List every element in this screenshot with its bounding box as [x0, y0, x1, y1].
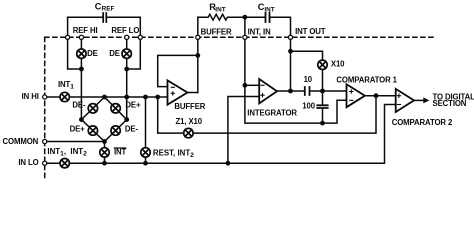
svg-text:REF LO: REF LO	[111, 26, 139, 35]
junction REF LO / CREF+	[124, 67, 129, 72]
svg-text:DE+: DE+	[70, 125, 86, 134]
wire X10 switch branch	[291, 51, 323, 91]
op-amp BUFFER	[168, 80, 188, 104]
junction bridge left corner	[79, 117, 84, 122]
pin COMMON	[43, 139, 47, 143]
switch REST,INT2	[141, 148, 150, 157]
svg-text:DE+: DE+	[125, 100, 141, 109]
svg-text:REF HI: REF HI	[73, 26, 98, 35]
junction REF LO line at IN HI	[124, 95, 129, 100]
svg-text:REF: REF	[102, 6, 115, 13]
junction REST branch at IN HI	[143, 95, 148, 100]
switch DE+ (bridge lower left)	[88, 126, 97, 135]
svg-text:INT1, INT2: INT1, INT2	[47, 147, 87, 158]
svg-text:BUFFER: BUFFER	[174, 102, 205, 111]
svg-text:IN LO: IN LO	[18, 158, 38, 167]
wire INT OUT lead	[290, 37, 292, 91]
junction bridge right corner	[124, 117, 129, 122]
svg-text:INT: INT	[114, 148, 127, 157]
wire REF LO lead	[126, 37, 128, 69]
junction INT OUT / X10 branch	[288, 49, 293, 54]
wire buffer feedback loop	[158, 55, 198, 86]
switch INT-bar (bridge bottom)	[100, 148, 109, 157]
integrator plus sign	[261, 94, 264, 97]
wire REF LO to bridge right corner	[126, 69, 128, 120]
comparator2 minus sign	[397, 104, 400, 106]
label CINT	[258, 2, 275, 14]
junction REST switch at IN LO	[143, 161, 148, 166]
wire buffer output	[187, 92, 197, 94]
pin CREF-	[66, 35, 70, 39]
svg-text:COMPARATOR 1: COMPARATOR 1	[336, 75, 397, 84]
wire CREF- lead	[68, 17, 82, 69]
arrow to digital section	[423, 97, 429, 103]
buffer minus sign	[171, 86, 174, 88]
svg-text:INTEGRATOR: INTEGRATOR	[247, 108, 297, 117]
wire integrator plus branch	[228, 97, 259, 164]
comparator2 plus sign	[397, 94, 400, 97]
svg-text:DE-: DE-	[125, 125, 139, 134]
capacitor 10	[305, 87, 310, 95]
svg-text:INT1: INT1	[58, 80, 74, 91]
switch Z1,X10	[184, 128, 193, 137]
capacitor CINT	[245, 13, 291, 38]
switch INT1,INT2 (IN LO)	[60, 159, 69, 168]
wire bridge left diagonals	[81, 97, 104, 142]
switch DE (under REF HI)	[77, 49, 86, 58]
pin INT,IN	[243, 35, 247, 39]
junction RINT / CINT / INT,IN	[243, 15, 248, 20]
junction Z1 branch at IN HI	[155, 95, 160, 100]
svg-text:DE: DE	[109, 49, 120, 58]
svg-text:COMPARATOR 2: COMPARATOR 2	[392, 118, 453, 127]
wire comparator2 output	[414, 99, 424, 101]
wire BUFFER pin lead	[197, 17, 199, 92]
wire integrator output / 10 cap row	[277, 90, 347, 92]
op-amp COMPARATOR 1	[347, 84, 365, 107]
wire REST INT2 branch	[145, 97, 147, 163]
svg-text:10: 10	[304, 75, 313, 84]
wire 100 line to comparator1 minus	[323, 100, 347, 123]
wire REF HI lead	[80, 37, 82, 69]
switch DE+ (bridge upper right)	[111, 104, 120, 113]
wire bridge right diagonals	[105, 97, 127, 142]
wire INT,IN lead down to 100 line	[245, 17, 323, 123]
wire Z1 X10 feedback line	[158, 96, 376, 133]
wire REF HI to bridge left corner	[80, 69, 82, 120]
svg-text:X10: X10	[331, 59, 345, 68]
switch DE- (bridge upper left)	[88, 104, 97, 113]
overline for INT-bar	[114, 147, 127, 148]
wire bridge bottom to IN LO (INT switch)	[104, 142, 106, 164]
svg-text:REST, INT2: REST, INT2	[153, 148, 194, 159]
wire comparator1 output	[365, 95, 396, 97]
svg-text:Z1, X10: Z1, X10	[176, 117, 203, 126]
pin INT OUT	[288, 35, 292, 39]
integrator minus sign	[261, 84, 264, 86]
svg-text:INT, IN: INT, IN	[248, 27, 271, 36]
svg-text:COMMON: COMMON	[3, 137, 39, 146]
junction 10 cap / X10	[320, 89, 325, 94]
pin IN HI	[43, 95, 47, 99]
resistor RINT	[198, 14, 245, 20]
junction integrator output	[288, 89, 293, 94]
wire CREF+ / REF LO corner	[127, 17, 141, 69]
label RINT	[209, 2, 225, 14]
chip boundary dashed left edge	[44, 37, 46, 181]
svg-text:INT: INT	[215, 7, 225, 14]
switch X10	[318, 60, 327, 69]
wire COMMON line	[45, 141, 105, 143]
comparator1 minus sign	[350, 99, 353, 101]
switch DE- (bridge lower right)	[111, 126, 120, 135]
junction REF HI / CREF-	[79, 67, 84, 72]
pin CREF+	[138, 35, 142, 39]
junction integrator minus	[243, 83, 248, 88]
chip boundary dashed top edge	[45, 36, 436, 38]
junction INT switch at IN LO	[102, 161, 107, 166]
svg-text:SECTION: SECTION	[433, 99, 467, 108]
switch DE (under REF LO)	[122, 49, 131, 58]
label CREF	[95, 2, 115, 13]
svg-text:DE: DE	[87, 49, 98, 58]
pin REF HI	[79, 35, 83, 39]
switch INT1 (IN HI)	[60, 92, 69, 101]
junction buffer feedback	[195, 53, 200, 58]
svg-text:IN HI: IN HI	[22, 92, 39, 101]
junction bridge bottom corner	[102, 139, 107, 144]
svg-text:DE-: DE-	[72, 100, 86, 109]
comparator1 plus sign	[350, 90, 353, 93]
wire IN HI line	[45, 96, 168, 98]
op-amp INTEGRATOR	[259, 79, 277, 103]
junction integrator plus at IN LO	[226, 161, 231, 166]
svg-text:BUFFER: BUFFER	[201, 27, 232, 36]
svg-text:100: 100	[302, 101, 315, 110]
capacitor 100	[317, 91, 327, 123]
junction 100 cap bottom	[320, 121, 325, 126]
wire IN LO line to comparator2 minus	[45, 105, 396, 164]
op-amp COMPARATOR 2	[396, 89, 414, 112]
svg-text:INT: INT	[264, 7, 274, 14]
pin IN LO	[43, 161, 47, 165]
wire integrator minus tee	[245, 84, 259, 86]
buffer plus sign	[171, 92, 174, 95]
capacitor CREF	[68, 13, 141, 22]
junction bridge top	[102, 95, 107, 100]
pin BUFFER	[196, 35, 200, 39]
junction comparator1 output	[374, 93, 379, 98]
pin REF LO	[125, 35, 129, 39]
svg-text:INT OUT: INT OUT	[295, 27, 326, 36]
